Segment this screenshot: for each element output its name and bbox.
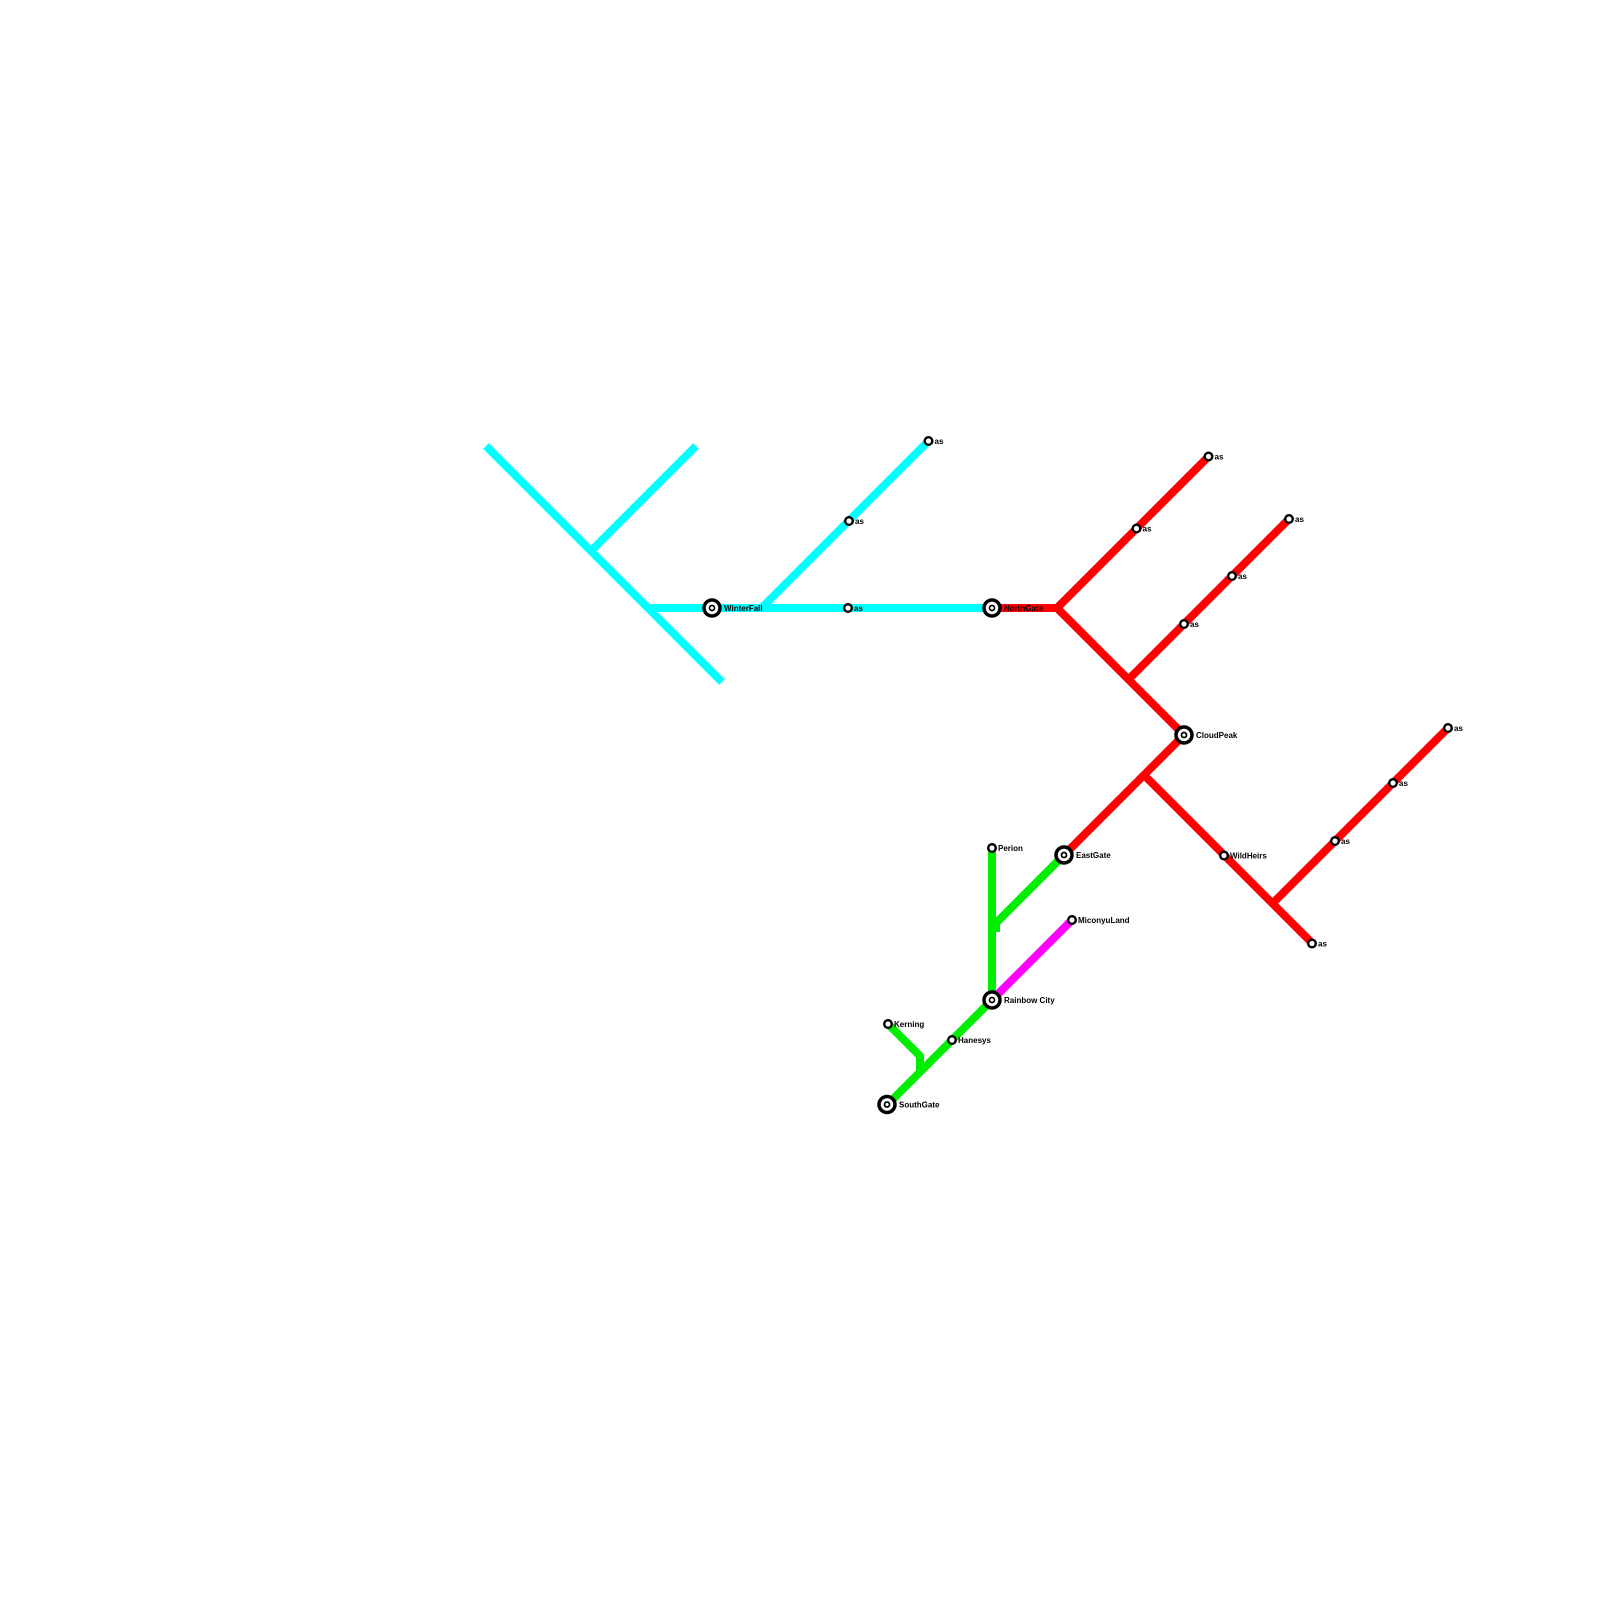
svg-text:Hanesys: Hanesys [958, 1036, 991, 1045]
green line Kerning branch [888, 1024, 920, 1072]
svg-text:as: as [1295, 515, 1304, 524]
svg-text:Kerning: Kerning [894, 1020, 924, 1029]
svg-text:WinterFall: WinterFall [724, 604, 763, 613]
station as (cyan NE branch mid) [845, 517, 853, 525]
magenta line Rainbow City to MiconyuLand [992, 920, 1072, 1000]
svg-text:as: as [1341, 837, 1350, 846]
station as (red J3 branch 1) [1331, 837, 1339, 845]
station as (red J1 branch terminal) [1285, 515, 1293, 523]
station Perion [988, 844, 996, 852]
svg-text:as: as [1399, 779, 1408, 788]
cyan line northeast branch [762, 441, 929, 608]
red line branch from J2 through WildHeirs [1144, 775, 1312, 943]
interchange WinterFall [704, 600, 720, 616]
svg-text:NorthGate: NorthGate [1004, 604, 1044, 613]
red line horizontal from NorthGate [992, 604, 1057, 612]
svg-text:Rainbow City: Rainbow City [1004, 996, 1055, 1005]
svg-text:as: as [1238, 572, 1247, 581]
station as (red J1 branch 2) [1228, 572, 1236, 580]
cyan line horizontal trunk [648, 604, 992, 612]
station as (cyan horizontal) [844, 604, 852, 612]
svg-text:as: as [1454, 724, 1463, 733]
cyan line upper branch [591, 446, 696, 551]
station Hanesys [948, 1036, 956, 1044]
svg-text:EastGate: EastGate [1076, 851, 1111, 860]
interchange EastGate [1056, 847, 1072, 863]
station MiconyuLand [1068, 916, 1076, 924]
station as (red J3 branch 2) [1389, 779, 1397, 787]
green line branch from EastGate [996, 855, 1064, 932]
interchange CloudPeak [1176, 727, 1192, 743]
red line branch from J3 northeast [1273, 728, 1449, 904]
interchange SouthGate [879, 1097, 895, 1113]
svg-text:WildHeirs: WildHeirs [1230, 852, 1267, 861]
svg-text:Perion: Perion [998, 844, 1023, 853]
station as (cyan NE branch terminal) [925, 437, 933, 445]
svg-text:MiconyuLand: MiconyuLand [1078, 916, 1130, 925]
station as (red upper branch mid) [1133, 525, 1141, 533]
green line Rainbow City to SouthGate [887, 1000, 992, 1105]
svg-text:as: as [855, 517, 864, 526]
interchange NorthGate [984, 600, 1000, 616]
svg-text:as: as [1215, 453, 1224, 462]
svg-text:as: as [1143, 525, 1152, 534]
red line branch at junction J1 [1129, 519, 1290, 680]
svg-text:as: as [935, 437, 944, 446]
station as (red south terminal) [1308, 940, 1316, 948]
red line main trunk to CloudPeak and EastGate [1057, 608, 1184, 855]
svg-text:as: as [854, 604, 863, 613]
svg-text:as: as [1190, 620, 1199, 629]
svg-text:SouthGate: SouthGate [899, 1101, 940, 1110]
red line upper branch [1057, 457, 1209, 609]
green line vertical Perion to Rainbow City [988, 848, 996, 1000]
interchange Rainbow City [984, 992, 1000, 1008]
svg-text:as: as [1318, 940, 1327, 949]
station as (red J3 branch terminal) [1444, 724, 1452, 732]
svg-text:CloudPeak: CloudPeak [1196, 731, 1238, 740]
cyan line main diagonal [486, 446, 722, 682]
station as (red J1 branch 1) [1180, 620, 1188, 628]
station as (red upper branch terminal) [1205, 453, 1213, 461]
station WildHeirs [1220, 852, 1228, 860]
station Kerning [884, 1020, 892, 1028]
